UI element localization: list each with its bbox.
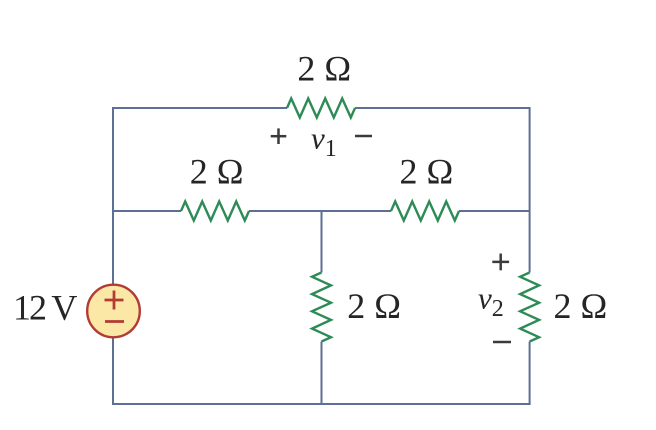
- svg-text:2 Ω: 2 Ω: [297, 49, 351, 89]
- svg-text:2 Ω: 2 Ω: [400, 152, 454, 192]
- svg-text:v2: v2: [478, 281, 504, 323]
- resistor R2 left-middle 2ohm zigzag: [181, 202, 249, 221]
- wire left vertical: [112, 107, 114, 404]
- voltage source plus sign: [105, 291, 125, 322]
- svg-text:2 Ω: 2 Ω: [554, 286, 608, 326]
- wire middle horizontal seg1: [113, 210, 181, 212]
- wire top left: [113, 107, 287, 109]
- voltage source 12V circle: [87, 285, 140, 338]
- wire right vertical lower: [529, 342, 531, 405]
- resistor R1 top 2ohm zigzag: [287, 99, 355, 118]
- resistor R3 right-middle 2ohm zigzag: [391, 202, 459, 221]
- wire middle horizontal seg2: [249, 210, 391, 212]
- resistor R4 middle vertical 2ohm zigzag: [312, 273, 331, 342]
- svg-text:12 V: 12 V: [13, 288, 77, 328]
- label plus sign v2: [492, 254, 509, 271]
- svg-text:2 Ω: 2 Ω: [190, 152, 244, 192]
- label plus sign v1: [271, 128, 287, 144]
- wire bottom: [112, 403, 531, 405]
- wire middle vertical upper: [321, 211, 323, 273]
- wire right vertical upper: [529, 107, 531, 273]
- wire: top side left segment: [112, 107, 531, 404]
- voltage source minus sign: [105, 320, 124, 323]
- label minus sign v1: [355, 135, 372, 137]
- wire middle vertical lower: [321, 342, 323, 405]
- wire top right: [355, 107, 530, 109]
- resistor R5 right vertical 2ohm zigzag: [520, 273, 539, 342]
- wire middle horizontal seg3: [459, 210, 530, 212]
- svg-text:v1: v1: [311, 121, 337, 163]
- label minus sign v2: [493, 341, 511, 343]
- svg-text:2 Ω: 2 Ω: [347, 286, 401, 326]
